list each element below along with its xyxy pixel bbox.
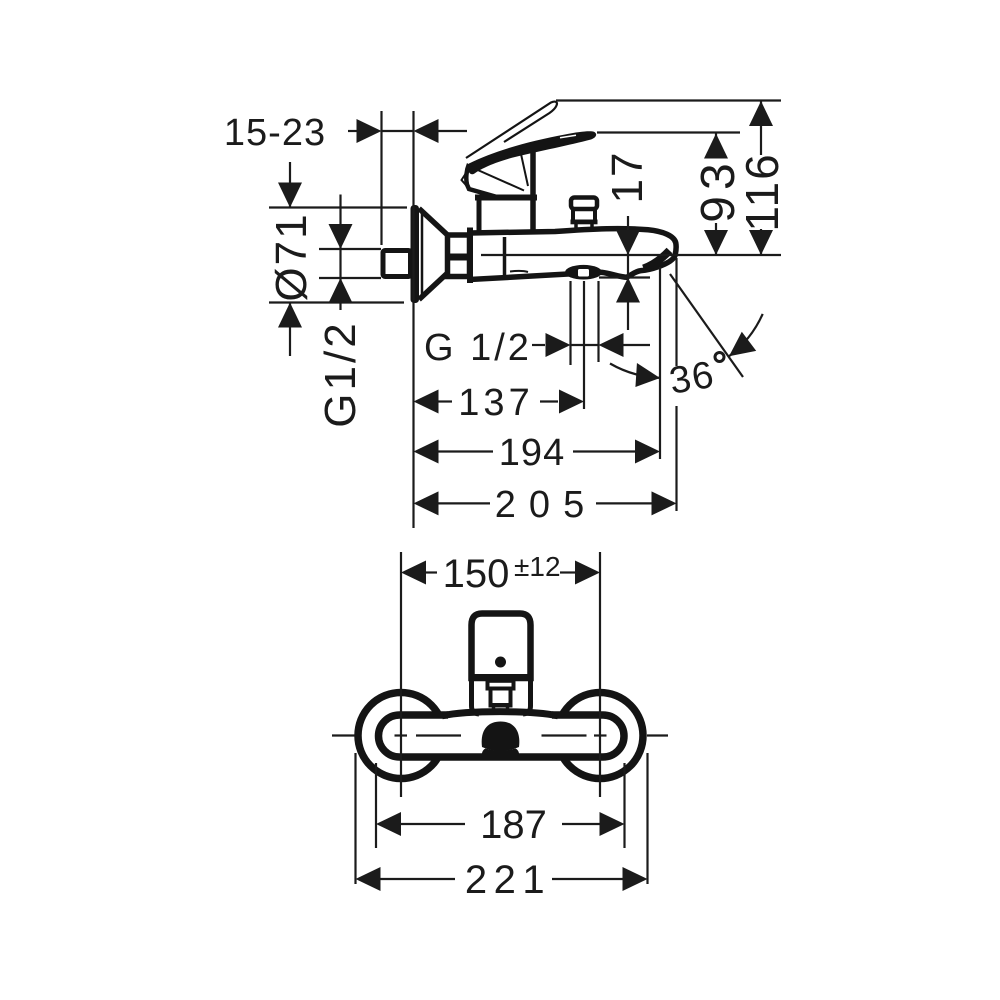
svg-text:G1/2: G1/2 bbox=[316, 320, 365, 427]
svg-text:±12: ±12 bbox=[514, 551, 561, 582]
svg-text:Ø71: Ø71 bbox=[267, 212, 316, 301]
svg-text:G 1/2: G 1/2 bbox=[424, 327, 532, 369]
svg-text:17: 17 bbox=[603, 151, 652, 204]
svg-text:194: 194 bbox=[499, 432, 565, 474]
svg-text:15-23: 15-23 bbox=[224, 112, 326, 154]
svg-text:221: 221 bbox=[465, 858, 551, 902]
svg-text:137: 137 bbox=[458, 382, 533, 424]
svg-text:187: 187 bbox=[480, 803, 547, 847]
svg-text:205: 205 bbox=[495, 484, 597, 526]
svg-text:36: 36 bbox=[666, 354, 718, 403]
svg-text:150: 150 bbox=[443, 552, 510, 596]
svg-text:116: 116 bbox=[736, 152, 788, 231]
